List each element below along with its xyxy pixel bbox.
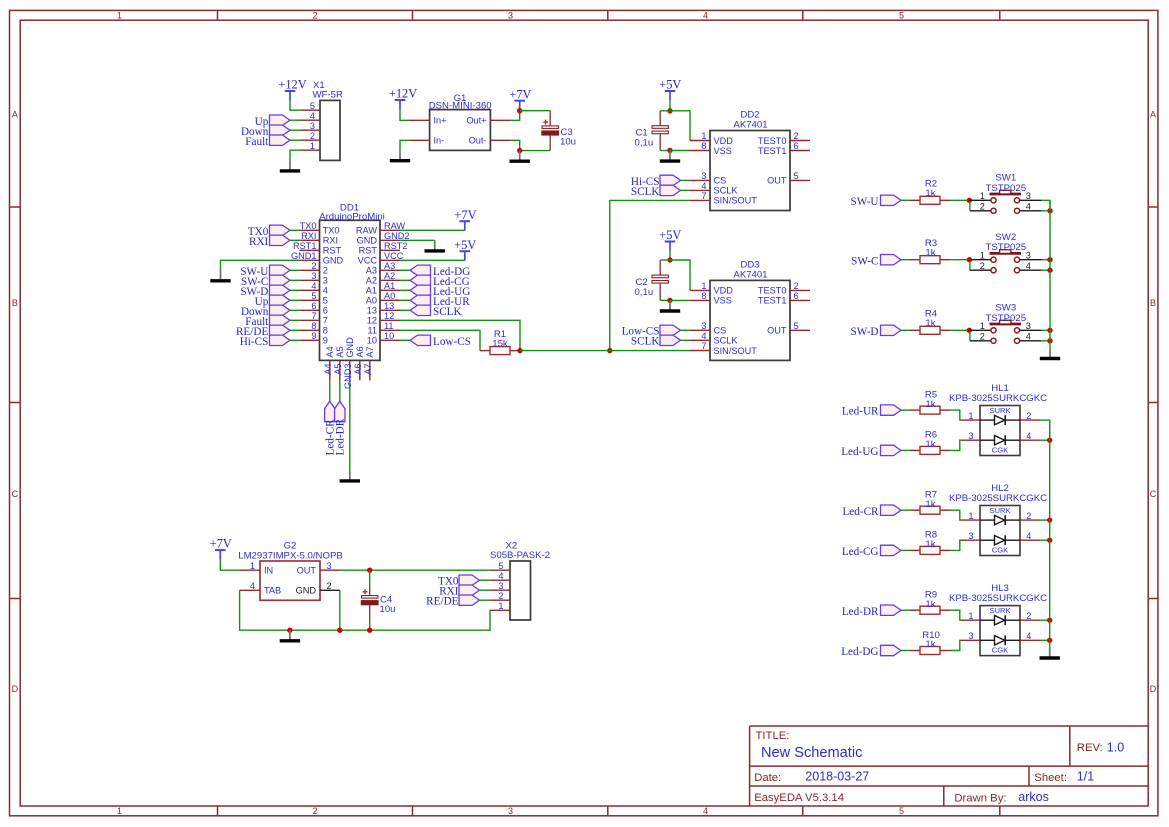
svg-text:4: 4 bbox=[498, 571, 503, 581]
C3 top lead bbox=[549, 111, 551, 126]
frame row tick marks right bbox=[1148, 207, 1158, 599]
svg-text:3: 3 bbox=[498, 581, 503, 591]
net flag Fault at DD1 bbox=[245, 315, 290, 328]
C2 top lead bbox=[659, 260, 661, 275]
svg-text:C: C bbox=[1150, 489, 1157, 499]
svg-text:SIN/SOUT: SIN/SOUT bbox=[714, 196, 758, 206]
svg-text:7: 7 bbox=[701, 341, 706, 351]
svg-text:SW-C: SW-C bbox=[851, 255, 878, 267]
wire ground rail bbox=[290, 629, 490, 631]
junction bus at HL3 pin4 bbox=[1047, 638, 1052, 643]
C1 bottom lead bbox=[659, 134, 661, 151]
DD1 bottom pin A5 bbox=[333, 346, 345, 380]
wire G1 In- to ground bbox=[400, 140, 410, 150]
wire Hi-CS flag to pin 9 bbox=[290, 339, 300, 341]
svg-text:Led-DG: Led-DG bbox=[841, 646, 878, 658]
wire Down flag to pin 6 bbox=[290, 309, 300, 311]
net flag Led-CG at DD1 A2 bbox=[410, 275, 470, 288]
svg-text:VCC: VCC bbox=[384, 251, 404, 261]
svg-text:Led-DR: Led-DR bbox=[335, 418, 347, 455]
svg-text:3: 3 bbox=[701, 321, 706, 331]
LED array HL1 bbox=[961, 406, 1040, 456]
switch SW2 bbox=[969, 250, 1041, 273]
net flag Led-DR below DD1 bbox=[335, 401, 347, 455]
svg-text:13: 13 bbox=[367, 306, 377, 316]
junction bus at HL2 pin2 bbox=[1047, 517, 1052, 522]
wire G2 TAB down to ground rail bbox=[240, 590, 290, 630]
svg-text:Led-DR: Led-DR bbox=[842, 606, 879, 618]
svg-text:RXI: RXI bbox=[249, 236, 269, 248]
X1 pin 2 bbox=[301, 131, 321, 141]
connector X2 body bbox=[510, 561, 531, 620]
X2 pin 4 bbox=[490, 571, 510, 581]
svg-text:+5V: +5V bbox=[659, 228, 681, 242]
net flag Led-UG at DD1 A1 bbox=[410, 285, 470, 298]
IC DD2 body bbox=[710, 131, 790, 211]
svg-text:5: 5 bbox=[899, 10, 904, 20]
C3 bottom lead bbox=[549, 135, 551, 151]
wire R4 to SW3 bbox=[950, 329, 969, 331]
resistor R8 bbox=[910, 546, 950, 554]
net flag Led-UR at DD1 A0 bbox=[410, 295, 470, 308]
G2 pin 1 IN bbox=[240, 561, 274, 576]
wire C1 bottom to VSS node bbox=[660, 150, 670, 152]
svg-text:5: 5 bbox=[794, 171, 799, 181]
svg-text:DSN-MINI-360: DSN-MINI-360 bbox=[429, 101, 492, 112]
C4 bottom lead bbox=[369, 605, 371, 630]
DD1 pin TX0 bbox=[300, 221, 340, 236]
wire Fault to X1 pin 2 bbox=[290, 139, 301, 141]
svg-text:Drawn By:: Drawn By: bbox=[954, 792, 1006, 804]
power flag +7V at DD1 RAW bbox=[454, 208, 476, 231]
frame row tick marks left bbox=[10, 207, 21, 599]
DD1 bottom pin A4 bbox=[323, 346, 335, 380]
svg-text:SW-U: SW-U bbox=[851, 196, 879, 208]
LED array HL2 bbox=[961, 506, 1040, 556]
svg-text:1k: 1k bbox=[925, 639, 935, 650]
DD2 pin 3 CS bbox=[690, 171, 726, 186]
svg-text:A4: A4 bbox=[325, 346, 335, 357]
C1 top lead bbox=[659, 111, 661, 126]
DD1 bottom pin GND3 bbox=[343, 337, 355, 389]
svg-text:+5V: +5V bbox=[454, 238, 476, 252]
wire SW-U flag to pin 2 bbox=[290, 269, 300, 271]
wire +7V to G2 IN bbox=[220, 559, 239, 570]
svg-text:A: A bbox=[1150, 110, 1156, 120]
svg-text:VDD: VDD bbox=[714, 286, 734, 296]
svg-text:A2: A2 bbox=[366, 276, 377, 286]
svg-text:2: 2 bbox=[310, 131, 315, 141]
svg-text:2: 2 bbox=[498, 591, 503, 601]
svg-text:VCC: VCC bbox=[358, 256, 378, 266]
title block bbox=[750, 726, 1149, 806]
svg-text:A7: A7 bbox=[365, 346, 375, 357]
wire X2 pin 1 to ground rail bbox=[488, 610, 491, 630]
frame column labels bottom bbox=[117, 806, 904, 816]
svg-text:8: 8 bbox=[311, 321, 316, 331]
DD1 pin 5 bbox=[300, 291, 328, 306]
DD1 pin 7 bbox=[300, 311, 328, 326]
net flag Fault bbox=[245, 135, 290, 148]
svg-text:15k: 15k bbox=[492, 338, 508, 349]
net flag Hi-CS at DD2 bbox=[631, 175, 681, 188]
svg-text:1: 1 bbox=[701, 281, 706, 291]
wire ground node to DD2 VSS bbox=[670, 150, 690, 152]
svg-text:5: 5 bbox=[498, 561, 503, 571]
svg-text:B: B bbox=[1150, 298, 1156, 308]
ground at G1 In- bbox=[390, 150, 410, 161]
wire SW3 pin3 to bus bbox=[1041, 329, 1050, 331]
wire Led-DR flag to R9 bbox=[901, 609, 910, 611]
G1 pin Out- bbox=[469, 136, 511, 146]
DD1 bottom pin A6 bbox=[353, 346, 365, 380]
wire +5V node to DD3 VDD bbox=[670, 260, 690, 290]
wire SW-D flag to R4 bbox=[901, 329, 910, 331]
wire C3 bottom to ground node bbox=[520, 150, 551, 152]
svg-text:4: 4 bbox=[311, 281, 316, 291]
X1 pin 4 bbox=[301, 111, 321, 121]
net flag Low-CS at DD3 bbox=[622, 325, 681, 338]
svg-text:5: 5 bbox=[311, 291, 316, 301]
wire A4 to Led-CR flag bbox=[329, 380, 331, 401]
net flag Led-DR at R9 bbox=[842, 605, 901, 618]
svg-text:A5: A5 bbox=[333, 364, 343, 375]
svg-text:RAW: RAW bbox=[356, 226, 377, 236]
net flag Led-UR at R5 bbox=[842, 405, 901, 418]
svg-text:VSS: VSS bbox=[714, 146, 732, 156]
svg-text:GND: GND bbox=[345, 337, 355, 358]
DD3 pin 1 VDD bbox=[690, 281, 733, 296]
X1 pin 5 bbox=[301, 101, 321, 111]
DD2 pin 6 TEST1 bbox=[758, 141, 810, 156]
resistor R7 bbox=[910, 506, 950, 514]
frame row labels right bbox=[1150, 110, 1157, 695]
junction SW3 pin1 node bbox=[967, 328, 972, 333]
DD1 pin 9 bbox=[300, 331, 328, 346]
svg-text:10u: 10u bbox=[380, 604, 396, 615]
svg-text:1k: 1k bbox=[925, 599, 935, 610]
svg-text:S05B-PASK-2: S05B-PASK-2 bbox=[490, 550, 550, 561]
wire Led-UG flag to R6 bbox=[901, 449, 910, 451]
svg-text:CS: CS bbox=[714, 326, 727, 336]
svg-text:7: 7 bbox=[323, 316, 328, 326]
svg-text:SCLK: SCLK bbox=[631, 336, 660, 348]
svg-text:New Schematic: New Schematic bbox=[761, 745, 862, 761]
net flag SW-C at switches bbox=[851, 255, 901, 268]
wire RE/DE flag to pin 8 bbox=[290, 329, 300, 331]
svg-text:RE/DE: RE/DE bbox=[426, 596, 458, 608]
junction bus at SW3 pin3 bbox=[1047, 328, 1052, 333]
wire R6 to HL1 pin 3 bbox=[950, 440, 961, 450]
junction bus at SW3 pin4 bbox=[1047, 338, 1052, 343]
svg-text:A3: A3 bbox=[384, 261, 395, 271]
svg-text:SIN/SOUT: SIN/SOUT bbox=[714, 346, 758, 356]
svg-text:GND2: GND2 bbox=[384, 231, 410, 241]
svg-text:D: D bbox=[12, 684, 19, 694]
frame column labels top bbox=[117, 10, 904, 20]
DD2 pin 4 SCLK bbox=[690, 181, 738, 196]
wire A1 to Led-UG flag bbox=[400, 289, 410, 291]
DD1 pin RST1 bbox=[293, 241, 341, 256]
svg-text:VDD: VDD bbox=[714, 136, 734, 146]
svg-text:6: 6 bbox=[323, 306, 328, 316]
svg-text:+5V: +5V bbox=[659, 78, 681, 92]
G1 pin In- bbox=[410, 136, 445, 146]
wire SW-C flag to pin 3 bbox=[290, 279, 300, 281]
svg-text:Out+: Out+ bbox=[466, 116, 486, 126]
net flag SW-D at DD1 bbox=[240, 285, 290, 298]
svg-text:A7: A7 bbox=[363, 364, 373, 375]
wire HL2 pin2 to bus bbox=[1040, 519, 1050, 521]
DD1 pin 8 bbox=[300, 321, 328, 336]
wire SW3 pin4 to bus bbox=[1041, 340, 1050, 342]
svg-text:RAW: RAW bbox=[384, 221, 405, 231]
X2 pin 1 bbox=[490, 601, 510, 611]
DD1 pin GND2 bbox=[357, 231, 410, 246]
svg-text:Led-CG: Led-CG bbox=[842, 546, 879, 558]
wire Fault flag to pin 7 bbox=[290, 319, 300, 321]
wire A0 to Led-UR flag bbox=[400, 299, 410, 301]
svg-text:4: 4 bbox=[703, 10, 708, 20]
wire LED ground bus bbox=[1049, 420, 1051, 647]
wire X1 pin 1 to ground bbox=[290, 150, 301, 160]
svg-text:REV:: REV: bbox=[1077, 742, 1103, 754]
ground at switch bus bbox=[1040, 348, 1060, 359]
svg-text:1: 1 bbox=[701, 131, 706, 141]
wire SW2 pin4 to bus bbox=[1041, 269, 1050, 271]
svg-text:1k: 1k bbox=[925, 247, 935, 258]
net flag TX0 at X2 bbox=[438, 575, 480, 588]
wire 10 to Low-CS flag bbox=[400, 339, 410, 341]
wire R5 to HL1 pin 1 bbox=[950, 410, 961, 420]
wire A5 to Led-DR flag bbox=[339, 380, 341, 401]
capacitor C2 bbox=[652, 275, 668, 283]
junction R1 right node bbox=[517, 348, 522, 353]
switch SW3 bbox=[969, 320, 1041, 343]
svg-text:2: 2 bbox=[327, 581, 332, 591]
svg-text:6: 6 bbox=[311, 301, 316, 311]
DD1 pin A0 bbox=[366, 291, 400, 306]
wire SW1 pin4 to bus bbox=[1041, 210, 1050, 212]
wire R1 to SIN/SOUT bus bbox=[520, 350, 610, 352]
svg-text:TSTP025: TSTP025 bbox=[986, 313, 1027, 324]
wire RE/DE flag to X2 pin 2 bbox=[480, 599, 491, 601]
DD1 pin A1 bbox=[366, 281, 400, 296]
wire VCC to +5V bbox=[400, 259, 465, 261]
ground at G2 rail bbox=[280, 630, 300, 641]
wire SW-D flag to pin 4 bbox=[290, 289, 300, 291]
wire RAW to +7V bbox=[400, 229, 465, 231]
junction SIN/SOUT bus node bbox=[607, 348, 612, 353]
svg-text:+7V: +7V bbox=[210, 537, 232, 551]
G1 pin Out+ bbox=[466, 116, 510, 126]
DD2 pin 7 SIN/SOUT bbox=[690, 191, 757, 206]
svg-text:SCLK: SCLK bbox=[631, 186, 660, 198]
wire R3 to SW2 bbox=[950, 259, 969, 261]
resistor R4 bbox=[910, 326, 950, 334]
svg-text:4: 4 bbox=[701, 181, 706, 191]
wire R10 to HL3 pin 3 bbox=[950, 640, 961, 650]
svg-text:7: 7 bbox=[311, 311, 316, 321]
svg-text:KPB-3025SURKCGKC: KPB-3025SURKCGKC bbox=[949, 593, 1047, 604]
wire DD1 pin 11 to R1 left bbox=[400, 330, 480, 350]
wire GND3 to ground bbox=[349, 380, 351, 470]
svg-text:3: 3 bbox=[701, 171, 706, 181]
net flag RE/DE at X2 bbox=[426, 595, 479, 608]
svg-text:GND: GND bbox=[296, 586, 317, 596]
X1 pin 1 bbox=[301, 141, 321, 151]
capacitor C1 bbox=[652, 126, 668, 134]
svg-text:3: 3 bbox=[508, 806, 513, 816]
svg-text:TEST0: TEST0 bbox=[758, 286, 787, 296]
junction SW1 pin1 node bbox=[967, 198, 972, 203]
svg-text:4: 4 bbox=[323, 286, 328, 296]
wire G1 Out- to ground node bbox=[510, 140, 519, 150]
junction C3 ground node bbox=[517, 148, 522, 153]
MCU DD1 body bbox=[320, 220, 381, 360]
resistor R1 bbox=[480, 347, 520, 355]
svg-text:3: 3 bbox=[323, 276, 328, 286]
svg-text:Date:: Date: bbox=[754, 772, 781, 784]
wire R7 to HL2 pin 1 bbox=[950, 510, 961, 520]
ground at G1 Out- bbox=[510, 151, 530, 162]
wire +5V down to node bbox=[669, 100, 671, 111]
wire HL3 pin2 to bus bbox=[1040, 619, 1050, 621]
svg-text:+7V: +7V bbox=[509, 87, 531, 101]
svg-text:3: 3 bbox=[508, 10, 513, 20]
svg-text:1k: 1k bbox=[925, 499, 935, 510]
wire Led-CG flag to R8 bbox=[901, 549, 910, 551]
X2 pin 2 bbox=[490, 591, 510, 601]
wire HL1 pin4 to bus bbox=[1040, 439, 1050, 441]
svg-text:11: 11 bbox=[367, 326, 377, 336]
net flag Up at DD1 bbox=[255, 295, 290, 308]
svg-text:1: 1 bbox=[117, 10, 122, 20]
wire +12V to G1 In+ bbox=[400, 109, 410, 120]
svg-text:CS: CS bbox=[714, 176, 727, 186]
power flag +5V at DD1 VCC bbox=[454, 238, 476, 261]
G2 pin 2 GND bbox=[296, 581, 340, 596]
wire DD2 SIN/SOUT down the left bbox=[610, 200, 690, 350]
svg-text:GND1: GND1 bbox=[291, 251, 317, 261]
wire ground node to DD3 VSS bbox=[670, 299, 690, 301]
power flag +12V at G1 bbox=[389, 87, 417, 110]
net flag Led-UG at R6 bbox=[841, 445, 901, 458]
G1 pin In+ bbox=[410, 116, 447, 126]
ground at DD1 GND2 bbox=[425, 240, 445, 251]
wire TX0 flag to X2 pin 4 bbox=[480, 579, 491, 581]
junction C1 top node bbox=[667, 108, 672, 113]
svg-text:SCLK: SCLK bbox=[433, 306, 462, 318]
svg-text:A6: A6 bbox=[353, 364, 363, 375]
resistor R6 bbox=[910, 446, 950, 454]
net flag Led-CG at R8 bbox=[842, 545, 901, 558]
DD1 pin A2 bbox=[366, 271, 400, 286]
net flag TX0 at DD1 bbox=[248, 225, 290, 238]
svg-text:2: 2 bbox=[311, 261, 316, 271]
DD1 pin 12 bbox=[367, 311, 400, 326]
svg-text:GND: GND bbox=[357, 236, 378, 246]
svg-text:Led-UR: Led-UR bbox=[842, 406, 879, 418]
net flag SCLK at DD2 bbox=[631, 185, 681, 198]
svg-text:TSTP025: TSTP025 bbox=[986, 183, 1027, 194]
svg-text:13: 13 bbox=[384, 301, 394, 311]
svg-text:10u: 10u bbox=[560, 137, 576, 148]
svg-text:VSS: VSS bbox=[714, 296, 732, 306]
svg-text:8: 8 bbox=[323, 326, 328, 336]
net flag RXI at DD1 bbox=[249, 235, 290, 248]
wire SW-U flag to R2 bbox=[901, 199, 910, 201]
net flag Hi-CS at DD1 bbox=[240, 335, 290, 348]
svg-text:TEST1: TEST1 bbox=[758, 296, 787, 306]
wire Low-CS to DD3 CS bbox=[681, 329, 691, 331]
wire G2 GND down to rail bbox=[339, 590, 341, 630]
capacitor C4 bbox=[361, 589, 378, 604]
resistor R3 bbox=[910, 256, 950, 264]
ground at LED bus bbox=[1040, 647, 1060, 658]
svg-text:EasyEDA V5.3.14: EasyEDA V5.3.14 bbox=[754, 792, 844, 804]
svg-text:RST: RST bbox=[359, 246, 378, 256]
wire Up flag to pin 5 bbox=[290, 299, 300, 301]
svg-text:OUT: OUT bbox=[297, 566, 317, 576]
svg-text:3: 3 bbox=[311, 271, 316, 281]
svg-text:TITLE:: TITLE: bbox=[756, 730, 790, 742]
junction ground rail at ground symbol bbox=[287, 628, 292, 633]
DD1 pin A3 bbox=[366, 261, 400, 276]
net flag Led-DG at DD1 A3 bbox=[410, 265, 470, 278]
svg-text:B: B bbox=[12, 298, 18, 308]
wire 13 to SCLK flag bbox=[400, 309, 410, 311]
svg-text:7: 7 bbox=[701, 191, 706, 201]
svg-text:4: 4 bbox=[250, 581, 255, 591]
DD1 pin RST2 bbox=[359, 241, 408, 256]
wire R2 to SW1 bbox=[950, 199, 969, 201]
svg-text:SCLK: SCLK bbox=[714, 336, 739, 346]
svg-text:+12V: +12V bbox=[389, 87, 417, 101]
wire Led-CR flag to R7 bbox=[901, 509, 910, 511]
junction C4 top node bbox=[367, 568, 372, 573]
ground at DD1 GND1 bbox=[210, 270, 230, 281]
junction bus at HL1 pin4 bbox=[1047, 438, 1052, 443]
net flag RXI at X2 bbox=[439, 585, 479, 598]
DD3 pin 6 TEST1 bbox=[758, 291, 810, 306]
junction bus at SW1 pin4 bbox=[1047, 208, 1052, 213]
svg-text:10: 10 bbox=[384, 331, 394, 341]
svg-text:1: 1 bbox=[310, 141, 315, 151]
svg-text:TEST0: TEST0 bbox=[758, 136, 787, 146]
junction bus at SW2 pin3 bbox=[1047, 257, 1052, 262]
wire R9 to HL3 pin 1 bbox=[950, 610, 961, 620]
svg-text:OUT: OUT bbox=[767, 326, 787, 336]
wire A2 to Led-CG flag bbox=[400, 279, 410, 281]
svg-text:1k: 1k bbox=[925, 439, 935, 450]
G2 pin 3 OUT bbox=[297, 561, 340, 576]
power flag +5V at C1 bbox=[659, 78, 681, 101]
wire GND1 to ground bbox=[221, 260, 300, 270]
svg-text:0,1u: 0,1u bbox=[635, 138, 654, 149]
svg-text:GND: GND bbox=[323, 256, 344, 266]
resistor R9 bbox=[910, 606, 950, 614]
net flag Down bbox=[241, 125, 290, 138]
svg-text:A0: A0 bbox=[366, 296, 377, 306]
wire G1 Out+ to +7V node bbox=[510, 111, 519, 121]
wire +5V node to DD2 VDD bbox=[670, 111, 690, 141]
net flag SW-C at DD1 bbox=[241, 275, 290, 288]
svg-text:1/1: 1/1 bbox=[1077, 770, 1094, 784]
svg-text:2: 2 bbox=[312, 10, 317, 20]
wire SCLK to DD2 SCLK bbox=[681, 189, 691, 191]
net flag SW-D at switches bbox=[851, 325, 901, 338]
